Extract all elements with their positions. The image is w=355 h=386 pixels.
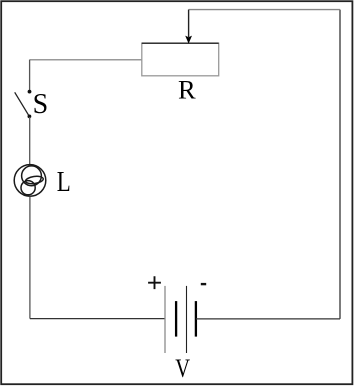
lamp L filament upper loop [22, 166, 42, 186]
wire lamp to bottom-left corner [29, 196, 31, 318]
rheostat slider arrow shaft [188, 10, 190, 37]
lamp L filament flat ellipse [25, 175, 44, 184]
wire switch to lamp [29, 117, 31, 165]
wire bottom-right horizontal (battery - to right side) [196, 318, 340, 320]
lamp L filament lower loop [21, 181, 35, 195]
wire bottom-left horizontal (to battery +) [30, 318, 165, 320]
wire top-left horizontal (switch to rheostat) [30, 59, 142, 61]
lamp L outer circle [14, 165, 46, 197]
battery plate short thick 2 (-) [195, 301, 197, 337]
rheostat R body top edge (dark) [142, 42, 219, 44]
battery - sign [201, 283, 206, 285]
svg-text:L: L [57, 167, 71, 198]
battery plate long thin 2 [186, 286, 188, 353]
wire right vertical [339, 10, 341, 319]
svg-text:R: R [178, 75, 196, 105]
battery plate short thick 1 [175, 301, 177, 337]
rheostat R body rectangle [142, 43, 219, 76]
battery + sign [148, 276, 161, 289]
svg-text:S: S [33, 89, 49, 120]
rheostat slider arrowhead [185, 36, 192, 44]
switch S terminal dot bottom [28, 115, 32, 119]
switch S blade [15, 92, 30, 116]
wire switch top vertical [29, 60, 31, 90]
wire top horizontal (to rheostat slider) [189, 9, 340, 11]
switch S terminal dot top [28, 90, 32, 94]
svg-text:V: V [175, 353, 190, 383]
battery plate long thin 1 (+) [164, 286, 166, 353]
